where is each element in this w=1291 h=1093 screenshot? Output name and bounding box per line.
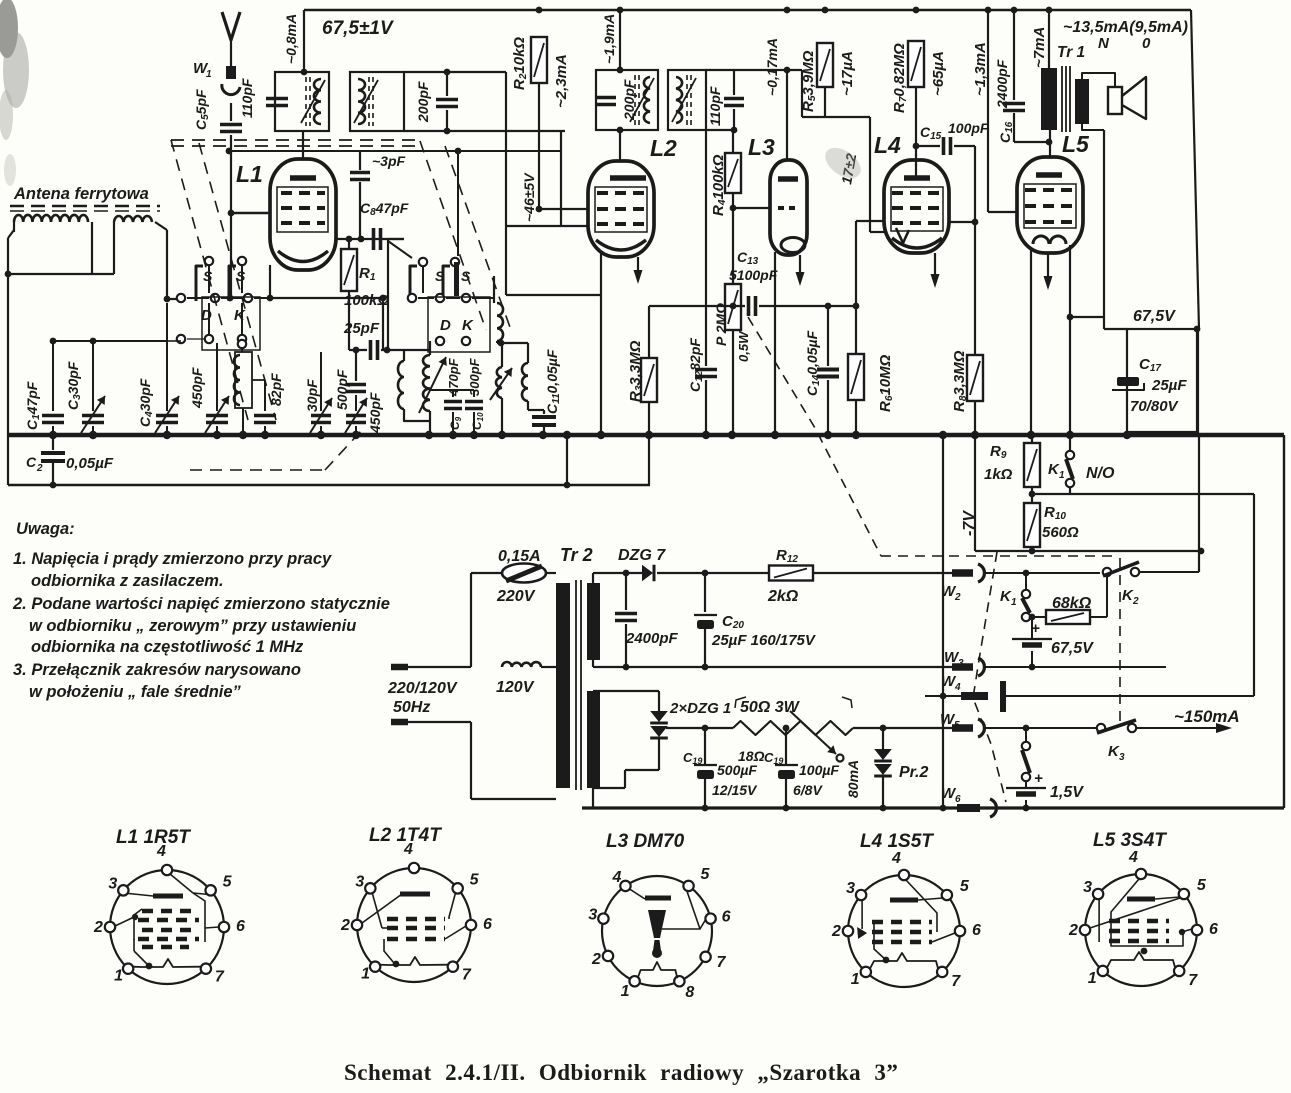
coil 82pF tank [238, 340, 246, 348]
svg-text:6/8V: 6/8V [793, 782, 823, 798]
svg-text:500pF: 500pF [334, 369, 350, 410]
capacitor 110pF IF [706, 69, 802, 71]
svg-text:80mA: 80mA [845, 760, 861, 798]
capacitor ~3pF [359, 152, 361, 170]
oscillator tank box 110pF [303, 10, 305, 72]
svg-text:470pF: 470pF [446, 357, 461, 397]
scan artifacts [0, 0, 18, 58]
svg-text:2: 2 [831, 923, 841, 940]
svg-text:5: 5 [954, 720, 960, 731]
resistor R9 1kΩ [1031, 435, 1033, 443]
svg-text:4: 4 [403, 841, 413, 858]
svg-text:8: 8 [685, 984, 694, 1001]
arrow L5 cathode [1047, 253, 1049, 280]
right border upper [1196, 329, 1198, 435]
ferrite rod dashed [10, 205, 160, 208]
coil small right [497, 303, 503, 341]
resistor R10 560Ω [1024, 503, 1040, 547]
svg-text:1kΩ: 1kΩ [984, 466, 1013, 483]
svg-text:2: 2 [591, 951, 601, 968]
wire L2 grid [536, 206, 543, 213]
svg-text:~46±5V: ~46±5V [521, 172, 537, 222]
arrow L2 cathode [637, 257, 639, 274]
switch K2 [1103, 568, 1111, 576]
wire R9 bottom [1031, 487, 1033, 503]
antenna [222, 12, 240, 40]
capacitor C2 0,05µF [52, 435, 54, 450]
svg-text:0,5W: 0,5W [736, 330, 751, 362]
svg-text:4: 4 [1128, 849, 1138, 866]
svg-text:R610MΩ: R610MΩ [877, 354, 895, 412]
capacitor C5 5pF [220, 123, 242, 127]
svg-text:w odbiorniku „ zerowym” przy u: w odbiorniku „ zerowym” przy ustawieniu [29, 617, 356, 635]
svg-text:5: 5 [1197, 877, 1207, 894]
svg-text:L4: L4 [874, 132, 901, 158]
svg-text:3: 3 [108, 875, 117, 892]
fuse 0,15A [470, 573, 472, 667]
svg-text:68kΩ: 68kΩ [1052, 595, 1092, 612]
wire bus to lower rail [566, 435, 568, 485]
right rail from top to C17 box [1191, 10, 1199, 329]
svg-text:R33,3MΩ: R33,3MΩ [627, 340, 645, 402]
switch K1 power [1023, 570, 1030, 577]
right vertical to K2 [1197, 435, 1201, 551]
top supply rail +67,5V [304, 9, 1191, 11]
svg-text:1: 1 [851, 971, 860, 988]
main bus chassis rail [8, 433, 1284, 438]
connector W3 [952, 663, 973, 671]
svg-text:100kΩ: 100kΩ [344, 292, 389, 309]
svg-text:6: 6 [1209, 921, 1218, 938]
coil group left osc [398, 361, 404, 409]
svg-text:110pF: 110pF [239, 78, 255, 118]
svg-text:odbiornika na częstotliwość 1: odbiornika na częstotliwość 1 MHz [31, 638, 304, 656]
svg-text:1: 1 [621, 983, 630, 1000]
svg-text:~1,9mA: ~1,9mA [601, 14, 617, 64]
svg-text:220/120V: 220/120V [387, 680, 458, 697]
svg-text:2400pF: 2400pF [625, 630, 679, 647]
svg-text:Pr.2: Pr.2 [899, 764, 928, 781]
svg-text:1: 1 [361, 966, 370, 983]
svg-text:25µF 160/175V: 25µF 160/175V [711, 632, 817, 649]
wire switch D down [208, 303, 210, 335]
svg-text:S: S [435, 268, 445, 284]
svg-text:Tr 1: Tr 1 [1057, 44, 1085, 61]
svg-text:~7mA: ~7mA [1031, 27, 1048, 68]
wire L2 to bus [600, 253, 602, 435]
gang dashed pot to switches [748, 317, 881, 556]
svg-text:4: 4 [954, 682, 961, 693]
wire NO to W4 plate [1253, 494, 1255, 696]
svg-text:C847pF: C847pF [360, 200, 409, 218]
connector separation dashed [973, 552, 1006, 802]
svg-text:70/80V: 70/80V [1130, 398, 1180, 415]
svg-text:Antena ferrytowa: Antena ferrytowa [13, 185, 149, 203]
resistor R8 3,3MΩ [967, 355, 983, 401]
band switch S1 left group [205, 257, 213, 265]
svg-text:K: K [234, 307, 246, 324]
resistor R6 10MΩ [853, 303, 860, 310]
band switch S2 right group [419, 258, 427, 266]
svg-text:5: 5 [960, 878, 970, 895]
svg-text:L5 3S4T: L5 3S4T [1093, 830, 1167, 851]
antenna coupling wire [226, 148, 233, 155]
svg-text:L1: L1 [236, 161, 263, 187]
vertical bus to W4 [942, 435, 944, 808]
svg-text:L2: L2 [650, 135, 677, 161]
svg-text:50Hz: 50Hz [393, 699, 430, 716]
wire transformer bottom to rail [592, 788, 594, 808]
wire coil1 left down [13, 222, 15, 232]
svg-text:L1 1R5T: L1 1R5T [116, 827, 191, 848]
svg-text:+: + [1031, 620, 1040, 637]
svg-text:450pF: 450pF [367, 392, 383, 434]
svg-text:7: 7 [462, 967, 472, 984]
IF transformer 1 box B [668, 70, 706, 130]
svg-text:30pF: 30pF [304, 379, 320, 412]
diode DZG 7 [592, 573, 594, 583]
svg-text:3: 3 [1083, 879, 1092, 896]
svg-text:6: 6 [483, 916, 492, 933]
svg-text:C: C [26, 454, 37, 470]
svg-text:P 2MΩ: P 2MΩ [713, 303, 729, 346]
battery 67,5V [1029, 614, 1036, 621]
wire coil ends [91, 222, 93, 274]
wire L3 filament to bus [774, 252, 776, 435]
svg-text:110pF: 110pF [707, 86, 723, 126]
capacitor 500pF [346, 383, 366, 387]
svg-text:1: 1 [114, 968, 123, 985]
capacitor C14 0,05µF [825, 303, 832, 310]
svg-text:~150mA: ~150mA [1174, 707, 1240, 726]
svg-text:K: K [462, 317, 474, 334]
svg-text:5: 5 [223, 873, 233, 890]
tube L5 [1049, 130, 1051, 157]
svg-text:12/15V: 12/15V [712, 782, 758, 798]
svg-text:67,5V: 67,5V [1051, 640, 1094, 657]
svg-text:2: 2 [93, 919, 103, 936]
svg-text:L3: L3 [748, 134, 775, 160]
svg-text:2kΩ: 2kΩ [767, 588, 799, 605]
svg-text:S: S [461, 268, 471, 284]
resistor 68kΩ [1025, 621, 1027, 639]
svg-text:3: 3 [846, 880, 855, 897]
tuning coil with arrow [423, 355, 430, 411]
svg-text:D: D [440, 317, 451, 334]
capacitor C8 47pF [336, 238, 404, 240]
svg-text:7: 7 [1188, 972, 1198, 989]
tuning gang dashed lines [171, 139, 420, 141]
svg-text:~0,8mA: ~0,8mA [283, 14, 299, 64]
tube L2 [588, 161, 654, 257]
svg-text:Schemat 2.4.1/II. Odbiornik: Schemat 2.4.1/II. Odbiornik radiowy „Sza… [344, 1060, 898, 1085]
svg-text:C1282pF: C1282pF [687, 338, 705, 392]
coil with arrow 2 [496, 367, 502, 398]
svg-text:6: 6 [722, 909, 731, 926]
capacitor 450pF variable [346, 414, 366, 418]
svg-text:D: D [201, 307, 212, 324]
tap 120V [502, 662, 541, 667]
svg-text:1: 1 [1059, 470, 1065, 481]
resistor R7 0,82MΩ [908, 41, 924, 87]
resistor R4 100kΩ [732, 130, 734, 153]
svg-text:2: 2 [340, 917, 350, 934]
HV secondary bottom to W3 [592, 660, 594, 667]
wire to L2 cathode column [506, 294, 601, 296]
svg-text:67,5±1V: 67,5±1V [322, 18, 394, 39]
svg-text:2: 2 [1068, 922, 1078, 939]
tank box 2 [350, 72, 404, 131]
wire coil2 right to switch [155, 222, 167, 230]
capacitor C9 470pF [452, 390, 454, 397]
lower rail [8, 484, 650, 486]
svg-text:odbiornika z zasilaczem.: odbiornika z zasilaczem. [31, 572, 224, 590]
switch K1 NO [1069, 435, 1071, 451]
tube L4 [884, 160, 949, 253]
ferrite coil 2 [114, 216, 152, 222]
svg-text:2400pF: 2400pF [994, 59, 1010, 109]
switch right hook to coil [472, 276, 494, 298]
capacitor C17 box 67,5V [1127, 329, 1198, 432]
capacitor 2400pF PS [623, 570, 630, 577]
svg-text:7: 7 [951, 973, 961, 990]
IF transformer 1 box A [619, 10, 621, 70]
wire tank2 to 200pF [404, 71, 506, 73]
svg-text:2. Podane wartości napięć zmie: 2. Podane wartości napięć zmierzono stat… [12, 595, 390, 613]
svg-text:1,5V: 1,5V [1050, 784, 1084, 801]
svg-text:1: 1 [206, 69, 212, 80]
capacitor C19b 100µF [783, 725, 790, 732]
svg-text:560Ω: 560Ω [1042, 524, 1079, 541]
svg-text:82pF: 82pF [268, 373, 284, 406]
svg-text:120V: 120V [496, 679, 535, 696]
svg-text:~1,3mA: ~1,3mA [972, 42, 989, 96]
resistor R2 10kΩ [531, 37, 547, 83]
mains input terminals [391, 664, 408, 671]
svg-text:C110,05µF: C110,05µF [544, 349, 562, 414]
capacitor C13 5100pF [730, 303, 737, 310]
connector W6 [957, 804, 980, 812]
connector W2 [952, 569, 973, 577]
svg-text:1: 1 [1088, 970, 1097, 987]
wire L5 filament to bus [1030, 250, 1032, 435]
wire volume to L4 grid [856, 220, 884, 222]
tube L3 DM70 [786, 70, 788, 160]
svg-text:3: 3 [355, 873, 364, 890]
svg-text:~3pF: ~3pF [372, 153, 406, 169]
dashed line lower [190, 469, 325, 471]
svg-text:2×DZG 1: 2×DZG 1 [669, 700, 731, 717]
wire to W5 [853, 727, 954, 729]
svg-text:100µF: 100µF [799, 762, 839, 778]
svg-text:220V: 220V [496, 588, 536, 605]
wire rectifier output [659, 727, 733, 729]
wire to S2 switch [455, 148, 462, 155]
arrow L3 cathode [799, 255, 801, 276]
svg-text:3: 3 [588, 907, 597, 924]
svg-text:4: 4 [156, 843, 166, 860]
coil right small [522, 363, 528, 401]
svg-text:~17µA: ~17µA [839, 51, 856, 96]
svg-text:200pF: 200pF [621, 79, 637, 121]
svg-text:6: 6 [955, 794, 961, 805]
capacitor 110pF in tank [266, 97, 288, 101]
svg-text:~65µA: ~65µA [930, 51, 947, 96]
ferrite coil 1 [14, 215, 88, 222]
capacitor C19 500µF [702, 725, 709, 732]
svg-text:+: + [1034, 770, 1043, 787]
tube L1 [270, 159, 336, 270]
svg-text:1: 1 [1011, 597, 1017, 608]
svg-text:L5: L5 [1062, 131, 1090, 157]
svg-text:w położeniu „ fale średnie”: w położeniu „ fale średnie” [29, 683, 242, 701]
svg-text:500µF: 500µF [717, 762, 757, 778]
svg-text:Tr 2: Tr 2 [560, 545, 593, 565]
svg-text:5: 5 [701, 866, 711, 883]
capacitor C12 82pF [705, 130, 707, 366]
svg-text:0,15A: 0,15A [498, 548, 541, 565]
svg-text:-7V: -7V [961, 510, 978, 536]
svg-text:R4100kΩ: R4100kΩ [710, 154, 728, 216]
wire L3 grid [730, 205, 737, 212]
capacitor C10 300pF [465, 400, 483, 404]
switch K3 [1097, 724, 1105, 732]
svg-text:0: 0 [1142, 35, 1151, 52]
svg-text:~13,5mA(9,5mA): ~13,5mA(9,5mA) [1063, 19, 1188, 36]
svg-text:6: 6 [972, 922, 981, 939]
svg-text:DZG 7: DZG 7 [618, 547, 666, 564]
resistor R1 100kΩ [348, 239, 350, 249]
svg-text:0,05µF: 0,05µF [66, 455, 114, 472]
svg-text:C147pF: C147pF [24, 381, 42, 430]
rheostat 50Ω 3W [733, 721, 853, 735]
capacitor C15 100pF [913, 143, 920, 150]
svg-text:5: 5 [470, 871, 480, 888]
svg-text:2: 2 [954, 592, 961, 603]
capacitor 200pF [436, 98, 458, 102]
svg-text:100pF: 100pF [948, 120, 989, 136]
svg-text:200pF: 200pF [415, 81, 431, 123]
wire L1 cathode to switch row [269, 265, 271, 298]
resistor R12 2kΩ [769, 566, 813, 581]
capacitor C20 25µF [702, 570, 709, 577]
capacitor 30pF [320, 352, 322, 411]
capacitor C11 0,05µF [543, 410, 545, 414]
svg-text:2: 2 [36, 463, 43, 474]
svg-text:25µF: 25µF [1151, 377, 1187, 394]
AVC line down [974, 146, 976, 355]
connector W5 [952, 724, 973, 732]
wire -7V line [975, 550, 1201, 552]
svg-text:6: 6 [236, 918, 245, 935]
main tuning caps row [52, 341, 54, 411]
svg-text:R210kΩ: R210kΩ [511, 37, 529, 90]
svg-text:~0,17mA: ~0,17mA [764, 38, 780, 96]
svg-text:5100pF: 5100pF [729, 267, 778, 283]
svg-text:4: 4 [611, 869, 621, 886]
wire antenna to L1 grid [228, 210, 235, 217]
svg-text:R70,82MΩ: R70,82MΩ [891, 43, 909, 113]
svg-text:3: 3 [1119, 752, 1125, 763]
resistor R5 3,9MΩ [817, 43, 833, 87]
connector W4 and chassis plate [925, 695, 961, 697]
svg-text:1. Napięcia i prądy zmierzono: 1. Napięcia i prądy zmierzono przy pracy [13, 550, 332, 568]
svg-text:450pF: 450pF [189, 367, 205, 409]
plug W1 [226, 66, 236, 79]
resistor R3 3,3MΩ [648, 306, 650, 358]
svg-text:L3 DM70: L3 DM70 [606, 831, 685, 852]
fuse Pr.2 [880, 725, 887, 732]
svg-text:4: 4 [891, 850, 901, 867]
svg-text:3. Przełącznik zakresów narys: 3. Przełącznik zakresów narysowano [13, 661, 301, 679]
capacitor 82pF [264, 380, 266, 411]
battery 1,5V switch [1025, 728, 1027, 742]
svg-text:3: 3 [958, 658, 964, 669]
wire mains lower [470, 722, 472, 799]
svg-text:~2,3mA: ~2,3mA [553, 54, 570, 108]
svg-text:L4 1S5T: L4 1S5T [860, 831, 934, 852]
svg-text:C330pF: C330pF [65, 361, 83, 410]
potentiometer P 2MΩ [725, 284, 741, 330]
speaker [1082, 73, 1115, 87]
svg-text:Uwaga:: Uwaga: [16, 520, 75, 538]
svg-text:C55pF: C55pF [193, 89, 211, 130]
svg-text:N/O: N/O [1086, 465, 1115, 482]
wire screen path [505, 72, 507, 295]
wire L5 grid [987, 10, 989, 212]
LV rectifier 2xDZG1 [593, 690, 659, 692]
svg-text:7: 7 [717, 954, 727, 971]
svg-text:C140,05µF: C140,05µF [804, 330, 822, 396]
wire R5 to cathode feedback [801, 70, 803, 117]
svg-text:R83,3MΩ: R83,3MΩ [951, 350, 969, 412]
arrow L4 cathode [934, 253, 936, 278]
capacitor C16 2400pF [1013, 10, 1015, 100]
svg-text:67,5V: 67,5V [1133, 308, 1176, 325]
svg-text:N: N [1098, 35, 1110, 52]
right border lower [1283, 435, 1285, 808]
svg-text:2: 2 [1132, 596, 1139, 607]
svg-text:C430pF: C430pF [137, 378, 155, 427]
bottom rail W6 [582, 806, 1284, 809]
svg-text:7: 7 [215, 969, 225, 986]
output transformer Tr1 [1048, 10, 1050, 68]
